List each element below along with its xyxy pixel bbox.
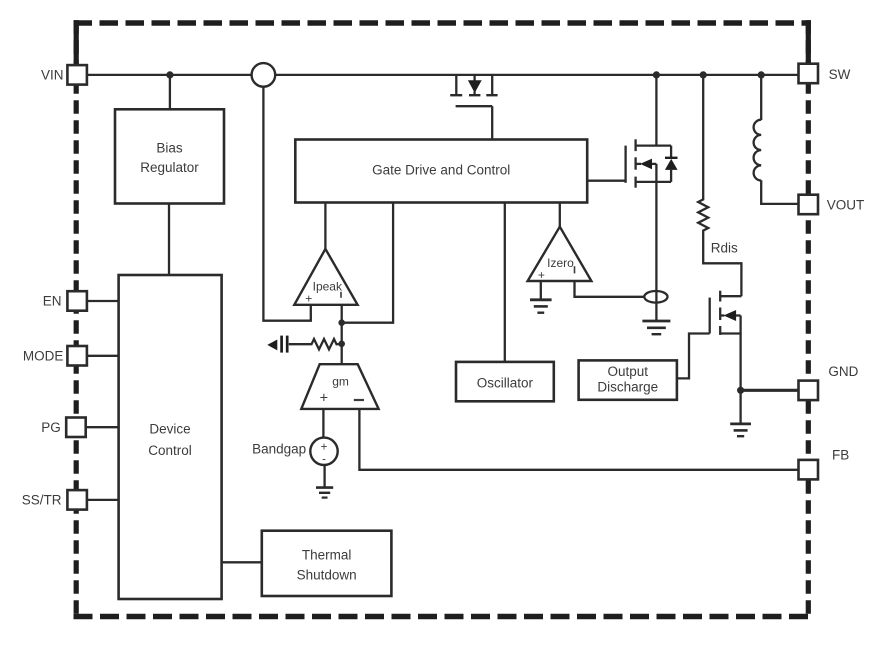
wire MODE pin stub <box>87 355 119 357</box>
transistor output discharge FET drain stub <box>720 295 741 297</box>
svg-text:Device: Device <box>149 422 190 437</box>
svg-text:Bandgap: Bandgap <box>252 442 306 457</box>
transistor output discharge FET body arrow <box>720 314 724 316</box>
IC boundary solid corner segment left (VIN to top corner) <box>74 20 79 66</box>
wire Bias Regulator to Device Control <box>168 204 170 276</box>
node comp junction (RC network) <box>338 341 345 348</box>
transistor sync rectifier FET gate bar <box>624 146 626 183</box>
wire Bias Regulator top connection <box>169 75 171 109</box>
svg-text:+: + <box>538 268 545 282</box>
wire VIN rail to Rdis <box>702 75 704 199</box>
wire junction to ground symbol <box>739 390 741 423</box>
svg-text:Rdis: Rdis <box>711 241 738 256</box>
resistor Rdis <box>698 198 708 233</box>
svg-text:MODE: MODE <box>23 349 64 364</box>
pin FB <box>799 460 819 480</box>
wire Gate Drive to Izero apex <box>559 203 561 229</box>
svg-text:GND: GND <box>828 364 858 379</box>
transistor high-side pass FET body diode arrow <box>473 75 475 81</box>
wire comp node vertical (Ipeak minus to gm input) <box>341 305 343 365</box>
pin EN <box>67 291 87 311</box>
wire Device Control to Thermal Shutdown <box>222 561 262 563</box>
sense oval on sync FET source <box>644 291 667 303</box>
wire Izero plus input to ground <box>540 281 542 299</box>
svg-text:Ipeak: Ipeak <box>313 280 343 294</box>
voltage source Bandgap <box>310 438 337 465</box>
wire Izero minus input to sense oval <box>575 281 646 297</box>
pin VIN <box>67 65 87 85</box>
wire VIN top rail <box>87 74 799 76</box>
capacitor compensation C <box>280 336 283 353</box>
node junction at GND <box>737 387 744 394</box>
svg-text:Output: Output <box>608 364 649 379</box>
block Gate Drive and Control <box>295 140 587 203</box>
IC boundary dashed border top <box>74 20 811 26</box>
node junction at inductor tap <box>758 71 765 78</box>
svg-text:+: + <box>320 390 328 406</box>
diode body diode of sync FET <box>670 146 672 159</box>
pin VOUT <box>799 195 819 215</box>
ground under sync FET <box>642 320 670 323</box>
node junction at Bias Regulator tap <box>166 71 173 78</box>
svg-text:Oscillator: Oscillator <box>477 376 534 391</box>
svg-text:Discharge: Discharge <box>597 380 658 395</box>
transistor high-side pass FET drain stub <box>455 75 457 95</box>
wire Output Discharge to discharge FET gate <box>677 334 710 379</box>
svg-text:Bias: Bias <box>156 141 183 156</box>
svg-text:Thermal: Thermal <box>302 548 352 563</box>
wire EN pin stub <box>87 300 119 302</box>
svg-text:FB: FB <box>832 448 849 463</box>
wire gm minus input to FB <box>359 409 798 470</box>
ground under discharge FET <box>730 422 751 425</box>
pin SS/TR <box>67 490 87 510</box>
svg-text:+: + <box>321 441 328 453</box>
ground under Izero <box>530 298 552 301</box>
resistor compensation R <box>289 339 342 349</box>
transistor high-side pass FET gate <box>456 105 493 107</box>
block Device Control <box>119 275 222 599</box>
wire SS/TR pin stub <box>87 499 119 501</box>
wire sync FET drain to VIN rail <box>655 75 657 146</box>
block Thermal Shutdown <box>262 531 392 596</box>
wire gm plus input to bandgap <box>322 409 324 438</box>
IC boundary dashed border right <box>806 20 811 619</box>
wire Gate Drive to sync FET gate <box>587 180 625 182</box>
wire Gate Drive to Ipeak apex <box>324 203 326 251</box>
wire Oscillator to Gate Drive <box>504 203 506 362</box>
svg-text:gm: gm <box>332 375 349 389</box>
pin MODE <box>67 346 87 366</box>
svg-text:VOUT: VOUT <box>827 197 865 212</box>
wire PG pin stub <box>87 426 119 428</box>
svg-text:Control: Control <box>148 443 192 458</box>
svg-text:Regulator: Regulator <box>140 160 199 175</box>
svg-text:VIN: VIN <box>41 68 64 83</box>
pin SW <box>799 64 819 83</box>
IC boundary dashed border left <box>74 20 79 619</box>
block Oscillator <box>456 362 554 401</box>
transistor sync rectifier FET channel segments <box>634 139 636 151</box>
wire Rdis to discharge FET drain <box>703 233 741 296</box>
pin PG <box>66 418 86 438</box>
node junction at Rdis tap <box>700 71 707 78</box>
inductor L <box>760 75 762 120</box>
wire current sense to Ipeak + input <box>263 87 310 321</box>
wire sync FET source down to ground <box>655 182 657 320</box>
arrow to external node (comp cap) <box>267 340 277 351</box>
IC boundary dashed border bottom <box>74 614 811 619</box>
svg-text:Izero: Izero <box>547 256 574 270</box>
pin GND <box>799 381 819 401</box>
svg-text:SS/TR: SS/TR <box>22 493 62 508</box>
transistor sync rectifier FET body arrow <box>636 163 641 165</box>
svg-text:-: - <box>322 453 326 465</box>
transistor output discharge FET channel segments <box>719 291 721 302</box>
comparator Izero <box>528 227 592 281</box>
svg-text:SW: SW <box>829 67 851 82</box>
svg-text:Shutdown: Shutdown <box>297 568 357 583</box>
error amplifier gm <box>301 364 378 409</box>
node junction at sync FET drain <box>653 71 660 78</box>
svg-text:Gate Drive and Control: Gate Drive and Control <box>372 163 510 178</box>
transistor sync rectifier FET source stub <box>636 181 672 183</box>
wire Ipeak output feedback from Gate Drive <box>342 203 393 323</box>
transistor high-side pass FET source stub <box>491 75 493 95</box>
block Output Discharge <box>579 360 677 399</box>
wire discharge FET source to GND pin <box>739 334 741 392</box>
transistor output discharge FET source stub <box>720 332 740 334</box>
IC boundary solid corner segment right (top corner to SW) <box>806 20 811 64</box>
transistor sync rectifier FET drain stub <box>636 144 672 146</box>
svg-text:PG: PG <box>41 420 61 435</box>
comparator Ipeak <box>294 249 357 305</box>
svg-text:EN: EN <box>43 294 62 309</box>
wire inductor to VOUT <box>761 180 798 204</box>
current sense circle on VIN rail <box>252 63 276 87</box>
block Bias Regulator <box>115 109 224 203</box>
ground under bandgap <box>323 465 325 487</box>
transistor output discharge FET gate bar <box>709 298 711 334</box>
node comp junction (Ipeak output) <box>338 319 345 326</box>
svg-text:+: + <box>305 292 312 306</box>
